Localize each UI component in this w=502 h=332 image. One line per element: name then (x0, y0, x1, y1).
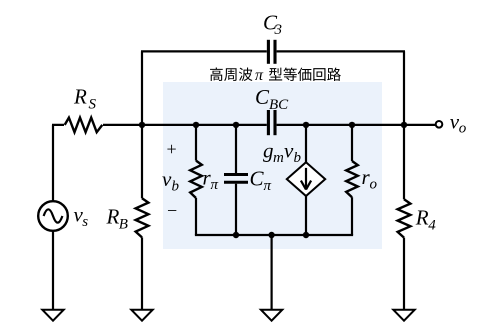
equivalent-circuit highlight box (163, 82, 382, 249)
resistor ro (346, 161, 358, 197)
wire: top loop right vertical (C3 to node C) (403, 51, 405, 125)
resistor RS (64, 116, 103, 134)
svg-text:b: b (172, 179, 180, 195)
svg-text:BC: BC (269, 97, 289, 113)
dependent current source gm*vb (diamond) (287, 162, 325, 196)
svg-text:o: o (370, 177, 378, 193)
junction ro top (349, 122, 355, 128)
wire: top loop horizontal right of C3 (277, 50, 405, 52)
ground (vs) (42, 310, 63, 321)
svg-text:v: v (162, 167, 172, 191)
wire: Cpi upper lead (235, 125, 237, 173)
ground (RB) (131, 310, 152, 321)
wire: ro lower lead (351, 197, 353, 235)
ground (R4) (393, 310, 414, 321)
capacitor C3 (268, 40, 275, 64)
svg-text:3: 3 (274, 22, 283, 38)
svg-text:C: C (255, 85, 270, 109)
svg-text:o: o (459, 121, 467, 137)
junction node C (C3/ro/R4/vo) (401, 122, 407, 128)
junction Cpi bottom (233, 232, 239, 238)
wire: vs source top lead (52, 125, 54, 201)
svg-text:S: S (89, 97, 97, 113)
svg-text:v: v (284, 139, 294, 163)
wire: RB lower lead (141, 237, 143, 310)
wire: R4 lower lead (403, 238, 405, 311)
resistor rpi (190, 161, 202, 198)
junction gm top (303, 122, 309, 128)
wire: main horizontal, source side (node B) (52, 124, 267, 126)
junction node B (RS/RB/C3/rpi) (139, 122, 145, 128)
svg-text:π: π (255, 67, 264, 84)
junction Cpi top (233, 122, 239, 128)
svg-text:R: R (415, 206, 429, 230)
wire: vs source bottom lead (52, 231, 54, 311)
source vs (sine source) (38, 201, 68, 231)
terminal vo (open circle) (436, 121, 443, 128)
svg-text:m: m (273, 150, 284, 166)
wire: emitter bottom rail (196, 234, 352, 235)
svg-text:−: − (167, 201, 177, 221)
wire: RB upper lead (141, 125, 143, 198)
wire: main horizontal, collector side (node C) (277, 124, 436, 126)
wire: top loop left vertical (node B to C3) (141, 51, 143, 125)
junction gm bottom (303, 232, 309, 238)
label: 高周波π型等価回路 (high-frequency pi-model equivalent circuit) (210, 67, 341, 84)
resistor R4 (398, 199, 411, 237)
capacitor CBC (268, 110, 275, 135)
svg-text:π: π (211, 177, 219, 193)
svg-text:s: s (82, 214, 88, 230)
svg-text:b: b (294, 150, 302, 166)
wire: bottom rail ground stub (271, 235, 273, 311)
svg-text:C: C (250, 167, 265, 191)
wire: ro upper lead (351, 125, 353, 161)
svg-text:4: 4 (428, 218, 436, 234)
wire: top loop horizontal left of C3 (141, 50, 267, 52)
resistor RB (136, 198, 149, 237)
svg-text:+: + (167, 139, 177, 159)
wire: rpi lower lead (195, 198, 197, 235)
svg-text:R: R (73, 85, 87, 109)
wire: R4 upper lead (403, 125, 405, 199)
wire: Cpi lower lead (235, 184, 237, 235)
ground (emitter rail) (261, 310, 282, 321)
wire: gm source lower lead (305, 196, 307, 235)
capacitor Cpi (224, 175, 248, 183)
junction rpi top (193, 122, 199, 128)
wire: gm source upper lead (305, 125, 307, 163)
wire: rpi upper lead (195, 125, 197, 161)
svg-text:R: R (106, 205, 120, 229)
svg-text:π: π (264, 178, 272, 194)
svg-text:g: g (263, 139, 274, 163)
svg-text:B: B (119, 217, 128, 233)
junction ground stub (268, 232, 274, 238)
